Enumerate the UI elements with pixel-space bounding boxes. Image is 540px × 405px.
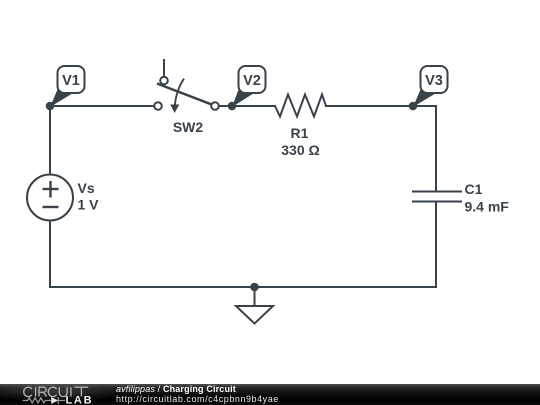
- svg-text:R1: R1: [291, 125, 309, 141]
- svg-text:330 Ω: 330 Ω: [281, 142, 319, 158]
- svg-text:LAB: LAB: [66, 395, 94, 405]
- svg-text:SW2: SW2: [173, 119, 204, 135]
- svg-text:9.4 mF: 9.4 mF: [465, 198, 510, 214]
- svg-text:1 V: 1 V: [78, 197, 100, 213]
- svg-text:V2: V2: [243, 73, 261, 89]
- svg-text:C1: C1: [465, 181, 483, 197]
- svg-text:V1: V1: [62, 73, 80, 89]
- svg-text:Vs: Vs: [78, 180, 95, 196]
- svg-text:V3: V3: [425, 73, 443, 89]
